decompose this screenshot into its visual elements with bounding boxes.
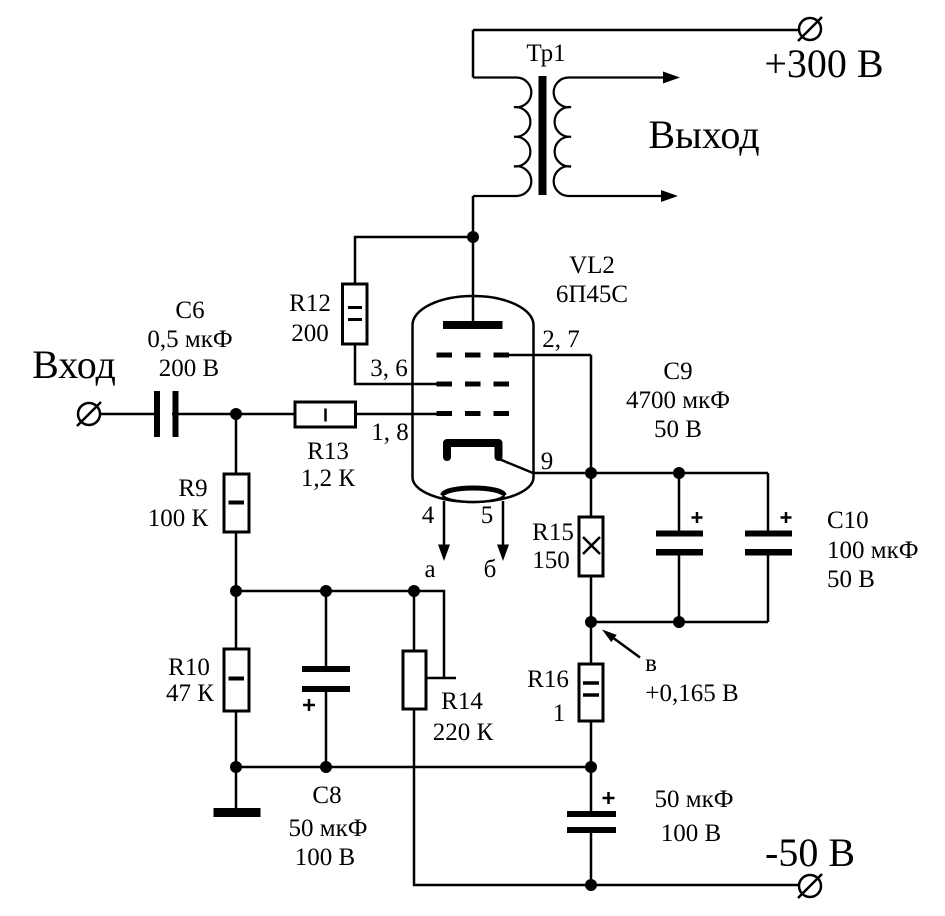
svg-text:VL2: VL2	[569, 252, 615, 279]
svg-text:5: 5	[481, 502, 494, 529]
svg-text:4: 4	[422, 502, 435, 529]
svg-text:в: в	[645, 650, 657, 677]
svg-text:R10: R10	[168, 654, 210, 681]
svg-text:С9: С9	[663, 358, 692, 385]
svg-text:б: б	[484, 556, 497, 583]
svg-text:С8: С8	[312, 782, 341, 809]
svg-text:R9: R9	[178, 475, 207, 502]
svg-text:+0,165 В: +0,165 В	[645, 680, 738, 707]
svg-text:0,5 мкФ: 0,5 мкФ	[147, 326, 232, 353]
svg-text:150: 150	[532, 547, 570, 574]
svg-text:50 мкФ: 50 мкФ	[289, 815, 368, 842]
svg-text:1,2 К: 1,2 К	[301, 465, 356, 492]
svg-text:50 В: 50 В	[827, 566, 875, 593]
svg-text:R16: R16	[527, 666, 569, 693]
svg-text:200 В: 200 В	[159, 355, 219, 382]
svg-text:-50 В: -50 В	[765, 830, 855, 875]
svg-text:R12: R12	[289, 290, 331, 317]
svg-text:220 К: 220 К	[433, 719, 494, 746]
svg-text:1, 8: 1, 8	[371, 419, 409, 446]
svg-text:100 К: 100 К	[148, 505, 209, 532]
svg-text:Вход: Вход	[32, 342, 116, 387]
svg-text:200: 200	[291, 320, 329, 347]
svg-text:50 В: 50 В	[654, 416, 702, 443]
svg-text:2, 7: 2, 7	[542, 326, 580, 353]
svg-text:100 В: 100 В	[295, 844, 355, 871]
svg-text:50 мкФ: 50 мкФ	[655, 786, 734, 813]
svg-text:а: а	[424, 556, 435, 583]
svg-text:R15: R15	[532, 519, 574, 546]
svg-text:47 К: 47 К	[166, 680, 214, 707]
svg-text:6П45С: 6П45С	[556, 281, 628, 308]
svg-text:4700 мкФ: 4700 мкФ	[626, 387, 730, 414]
svg-text:Тр1: Тр1	[526, 40, 565, 67]
svg-text:R14: R14	[441, 688, 483, 715]
svg-text:1: 1	[553, 700, 566, 727]
svg-text:3, 6: 3, 6	[370, 355, 408, 382]
svg-text:Выход: Выход	[648, 112, 759, 157]
svg-text:100 мкФ: 100 мкФ	[827, 537, 918, 564]
svg-text:9: 9	[541, 448, 554, 475]
svg-text:100 В: 100 В	[661, 820, 721, 847]
svg-text:С6: С6	[175, 297, 204, 324]
svg-text:R13: R13	[307, 438, 349, 465]
svg-text:+300 В: +300 В	[764, 41, 883, 86]
svg-text:С10: С10	[827, 507, 869, 534]
